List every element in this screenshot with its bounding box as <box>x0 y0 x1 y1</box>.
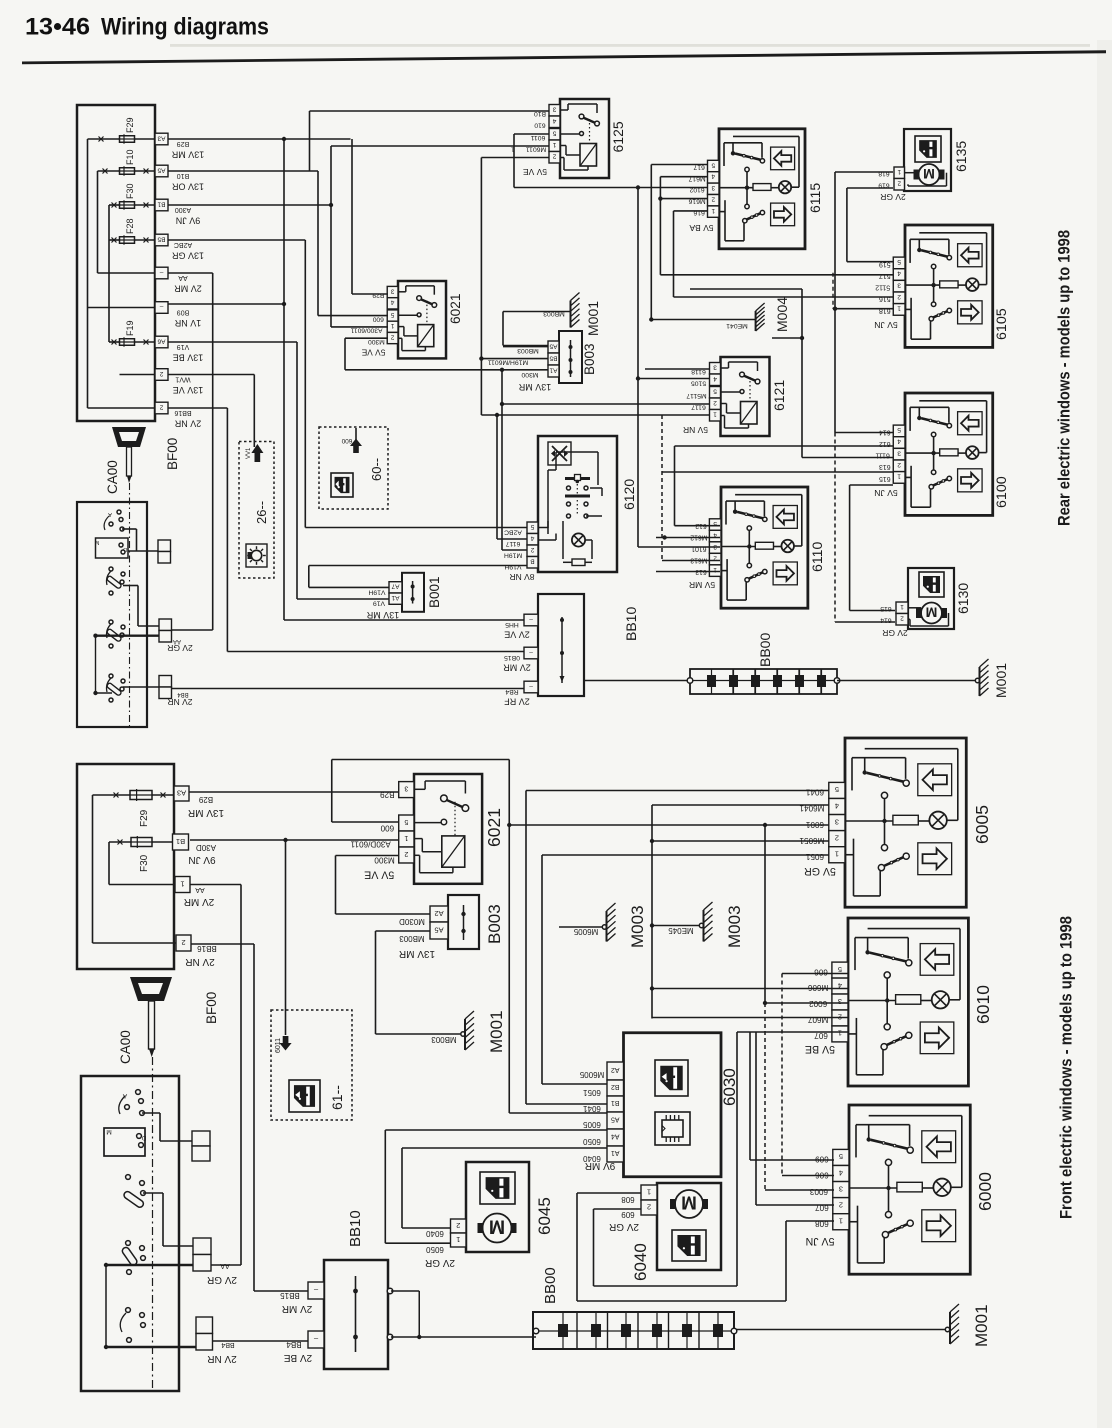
ignition switch CA00 front box <box>81 1076 179 1391</box>
svg-text:A2BC: A2BC <box>174 241 192 248</box>
6030 pin B1 <box>607 1096 624 1112</box>
ground M001 rear-mid <box>502 312 504 346</box>
svg-text:M607: M607 <box>807 1015 828 1024</box>
svg-text:5V VE: 5V VE <box>364 868 394 880</box>
svg-text:M001: M001 <box>993 663 1009 698</box>
svg-text:F28: F28 <box>125 218 135 234</box>
svg-text:0B15: 0B15 <box>504 654 520 661</box>
svg-text:2: 2 <box>390 333 394 340</box>
junction box BB10 rear <box>538 594 584 696</box>
wire 6115 pin5 to M004 <box>651 164 707 166</box>
svg-text:6101: 6101 <box>691 545 706 552</box>
svg-text:M19H/M6011: M19H/M6011 <box>488 359 529 366</box>
wire 1V NR B09 to BB10 <box>168 303 284 305</box>
svg-text:AA: AA <box>178 274 188 281</box>
junction box BB10 front <box>324 1260 388 1369</box>
wire A300 B1 to 6125 pin1 and 6021 pin1 <box>168 204 331 206</box>
ground M003 left <box>559 926 604 928</box>
svg-text:F30: F30 <box>139 854 150 872</box>
svg-text:B001: B001 <box>427 576 442 608</box>
BF00 pin – B09 <box>155 302 168 314</box>
svg-text:4: 4 <box>713 375 717 382</box>
svg-text:ME045: ME045 <box>668 926 694 935</box>
BF00 pin A3 B29 <box>155 133 168 145</box>
svg-text:B5: B5 <box>549 354 557 361</box>
svg-text:5112: 5112 <box>875 284 890 291</box>
svg-text:2: 2 <box>181 938 185 947</box>
wire 6115 pin4/pin2 to 6105 pin4 <box>660 176 707 178</box>
svg-text:608: 608 <box>621 1195 635 1204</box>
svg-text:2: 2 <box>404 850 408 858</box>
svg-text:A3: A3 <box>177 788 186 797</box>
wire M6011 6125 pin2 to B003 <box>481 157 549 159</box>
wire 6110 pin5 to 6100 pin4 <box>675 525 721 527</box>
switch 6115 <box>719 129 805 249</box>
svg-text:M003: M003 <box>628 905 647 948</box>
svg-text:A1: A1 <box>549 366 557 373</box>
CA00 front connector 1 <box>192 1131 210 1146</box>
svg-text:6003: 6003 <box>809 1187 828 1196</box>
svg-text:5V BE: 5V BE <box>805 1043 835 1055</box>
60-- arrow 600 <box>355 428 357 440</box>
svg-text:13V MR: 13V MR <box>399 948 435 959</box>
svg-text:A7: A7 <box>391 583 399 590</box>
CA00 front connector AA <box>193 1238 211 1255</box>
wire 609 inner loop <box>594 1208 642 1210</box>
svg-text:6130: 6130 <box>955 583 971 614</box>
svg-text:5: 5 <box>552 130 556 137</box>
wire BB16 front chain <box>191 943 254 945</box>
svg-text:B1: B1 <box>176 837 185 846</box>
svg-text:1: 1 <box>897 473 901 480</box>
svg-text:2: 2 <box>897 461 901 468</box>
svg-text:5V JN: 5V JN <box>806 1235 835 1247</box>
wire 606 dashed chain <box>781 974 783 1176</box>
svg-text:F19: F19 <box>125 320 135 336</box>
svg-text:13V MR: 13V MR <box>518 382 551 392</box>
svg-text:M617: M617 <box>688 175 705 182</box>
svg-text:6110: 6110 <box>809 541 825 572</box>
BF00 front pin B1 <box>173 834 189 850</box>
6030 pin A1 <box>607 1146 624 1162</box>
svg-text:2V GR: 2V GR <box>882 628 908 638</box>
svg-text:B29: B29 <box>177 140 190 147</box>
svg-text:13V MR: 13V MR <box>366 610 399 620</box>
svg-text:A300: A300 <box>175 206 191 213</box>
svg-text:3: 3 <box>835 817 839 826</box>
fuse F30 front <box>131 838 152 847</box>
svg-text:2: 2 <box>900 615 904 622</box>
dashed link 6121/6110 <box>661 415 663 561</box>
svg-text:2: 2 <box>456 1221 460 1230</box>
svg-text:2: 2 <box>835 833 839 842</box>
svg-text:1: 1 <box>390 322 394 329</box>
svg-text:6125: 6125 <box>610 121 626 152</box>
svg-text:2: 2 <box>713 399 717 406</box>
svg-text:4: 4 <box>530 535 534 542</box>
svg-text:A2: A2 <box>434 909 443 918</box>
svg-text:BB10: BB10 <box>623 607 639 641</box>
BF00 front pin 2 <box>176 935 191 951</box>
svg-text:A2BC: A2BC <box>504 529 522 536</box>
svg-text:F29: F29 <box>139 809 150 827</box>
connector B003 rear <box>559 331 582 383</box>
svg-text:5V VE: 5V VE <box>361 348 385 358</box>
svg-text:BB16: BB16 <box>197 944 217 953</box>
svg-text:1: 1 <box>900 603 904 610</box>
svg-text:F29: F29 <box>125 117 135 133</box>
fusebox BF00 rear <box>77 105 155 421</box>
svg-text:RB4: RB4 <box>505 688 518 695</box>
wire B29/A3 to 6021 pin3 <box>168 138 351 140</box>
svg-text:M19H: M19H <box>504 552 522 559</box>
CA00 front contact 2 <box>126 1175 131 1180</box>
title rule <box>170 44 1090 47</box>
svg-text:1: 1 <box>835 849 839 858</box>
svg-text:5: 5 <box>530 523 534 530</box>
61-- window icon <box>289 1080 320 1112</box>
svg-text:2: 2 <box>711 195 715 202</box>
svg-text:V19: V19 <box>177 343 190 350</box>
switch 6105 <box>905 225 993 347</box>
svg-text:M300: M300 <box>521 371 538 378</box>
svg-text:5V GR: 5V GR <box>804 865 836 877</box>
svg-text:6040: 6040 <box>426 1229 444 1238</box>
fuse F29 front <box>130 791 152 800</box>
svg-text:2V MR: 2V MR <box>184 896 215 907</box>
wire WV1 13V VE to 26-- <box>168 374 254 376</box>
svg-text:9V JN: 9V JN <box>188 854 215 865</box>
svg-text:5: 5 <box>897 426 901 433</box>
wire 6041 long <box>526 790 829 792</box>
connector strip BB00 rear <box>690 669 837 694</box>
svg-text:A1: A1 <box>611 1149 620 1156</box>
svg-text:6105: 6105 <box>994 308 1010 340</box>
wire M300 6021 pin2 to B003 <box>336 855 399 857</box>
wire B001-A7 to 6120 pinB <box>309 586 389 588</box>
svg-text:2: 2 <box>159 370 163 377</box>
svg-text:4: 4 <box>835 801 839 810</box>
svg-text:6005: 6005 <box>583 1120 601 1129</box>
wire 6001 to 6005 pin3 <box>509 824 829 826</box>
svg-text:A30D: A30D <box>196 843 216 852</box>
svg-text:3: 3 <box>839 1184 843 1193</box>
wire 6115 pin1 to 6105 pin2 <box>674 210 708 212</box>
svg-text:6120: 6120 <box>621 479 637 510</box>
svg-text:6021: 6021 <box>448 293 463 324</box>
ignition key CA00 front <box>130 977 172 1001</box>
svg-text:2V BE: 2V BE <box>284 1352 313 1363</box>
svg-text:A6: A6 <box>157 337 165 344</box>
svg-text:5: 5 <box>711 161 715 168</box>
fuse F29 <box>120 136 135 143</box>
svg-text:6050: 6050 <box>583 1137 601 1146</box>
wire 6100 pin2 long <box>662 471 893 473</box>
svg-text:4: 4 <box>839 1168 843 1177</box>
26-- arrow VV1 <box>253 375 255 448</box>
svg-text:3: 3 <box>838 997 842 1006</box>
switch 6110 <box>721 487 808 608</box>
svg-text:13V GR: 13V GR <box>171 251 204 261</box>
svg-text:5105: 5105 <box>691 380 706 387</box>
ignition key CA00 rear <box>112 427 146 447</box>
svg-text:6135: 6135 <box>953 141 969 172</box>
fuse F19 <box>120 339 135 346</box>
svg-text:BB15: BB15 <box>280 1291 300 1300</box>
fuse F30 <box>120 202 135 209</box>
ignition switch CA00 rear box <box>77 502 147 727</box>
svg-text:CA00: CA00 <box>105 460 120 494</box>
svg-text:61--: 61-- <box>329 1085 345 1110</box>
wire 609 chain <box>749 1032 751 1160</box>
wire A30D to 6021 pin1 and 61-- <box>190 839 398 841</box>
svg-text:2V GR: 2V GR <box>207 1274 237 1285</box>
wire 6110 pin1 stub <box>656 571 720 573</box>
svg-text:5: 5 <box>390 311 394 318</box>
svg-text:B: B <box>530 558 534 565</box>
wire A2BC B5 to 6120 pin5 <box>168 239 305 241</box>
svg-text:618: 618 <box>879 307 891 314</box>
svg-text:B003: B003 <box>582 343 597 375</box>
svg-text:Wiring diagrams: Wiring diagrams <box>101 14 269 41</box>
wire 6050 to 6045 pin1 <box>385 1129 607 1131</box>
svg-text:2V GR: 2V GR <box>167 643 193 653</box>
svg-text:5V JN: 5V JN <box>874 488 898 498</box>
svg-text:2V NR: 2V NR <box>167 697 192 707</box>
svg-text:4: 4 <box>897 270 901 277</box>
switch 6005 <box>845 738 966 907</box>
svg-text:2: 2 <box>552 153 556 160</box>
svg-text:–: – <box>159 268 163 275</box>
svg-text:2V MR: 2V MR <box>503 663 531 673</box>
svg-text:BB10: BB10 <box>347 1210 364 1247</box>
wire AA front chain <box>190 884 241 886</box>
svg-text:M003: M003 <box>725 905 744 948</box>
6030 pin A2 <box>607 1062 624 1080</box>
svg-text:CA00: CA00 <box>118 1030 133 1064</box>
svg-text:WV1: WV1 <box>175 376 190 383</box>
svg-text:M: M <box>681 1192 697 1213</box>
svg-text:MB003: MB003 <box>517 347 539 354</box>
svg-text:1: 1 <box>897 168 901 175</box>
svg-text:B003: B003 <box>485 904 504 944</box>
CA00 rear contact 3 <box>109 620 113 624</box>
svg-text:–: – <box>529 682 533 689</box>
connector B003 front <box>448 895 479 949</box>
svg-text:60--: 60-- <box>369 458 384 481</box>
svg-text:609: 609 <box>815 1155 829 1164</box>
svg-text:A4: A4 <box>611 1133 620 1140</box>
26-- bulb icon <box>246 544 267 567</box>
svg-text:MB003: MB003 <box>431 1035 457 1044</box>
BF00 pin 2 WV1 <box>155 369 168 381</box>
svg-text:–: – <box>159 303 163 310</box>
motor 6045 <box>466 1162 529 1252</box>
svg-text:2V GR: 2V GR <box>609 1221 639 1232</box>
svg-text:F30: F30 <box>125 183 135 199</box>
svg-text:2: 2 <box>647 1202 651 1211</box>
svg-text:6041: 6041 <box>805 788 824 797</box>
svg-text:2: 2 <box>897 180 901 187</box>
svg-text:B2: B2 <box>611 1083 620 1090</box>
wire B10 A5 to 6125 pin3 <box>168 170 318 172</box>
svg-text:MB003: MB003 <box>543 310 565 317</box>
60-- window icon <box>331 473 353 497</box>
svg-text:606: 606 <box>814 967 828 976</box>
relay 6021 <box>414 774 482 884</box>
BF00 front internal wiring <box>93 794 131 796</box>
svg-text:–: – <box>529 615 533 622</box>
svg-text:M004: M004 <box>774 297 790 332</box>
wire 6105/6100 pin3 link <box>801 289 803 458</box>
svg-text:5V NR: 5V NR <box>683 425 708 435</box>
wire BB4 front to BB10 <box>213 1340 309 1342</box>
timer unit 6120 <box>538 436 617 572</box>
motor 6040 <box>657 1183 721 1270</box>
svg-text:1: 1 <box>552 141 556 148</box>
svg-text:BF00: BF00 <box>165 438 180 470</box>
CA00 rear connector 2 AA <box>159 619 172 631</box>
svg-text:–: – <box>529 648 533 655</box>
svg-text:5: 5 <box>838 965 842 974</box>
svg-text:6041: 6041 <box>583 1104 601 1113</box>
svg-text:2: 2 <box>159 403 163 410</box>
svg-text:4: 4 <box>552 117 556 124</box>
relay 6121 <box>721 357 770 436</box>
BF00 internal wiring <box>88 138 120 140</box>
BF00 front pin 1 <box>175 877 190 893</box>
CA00 front connector BB4 <box>196 1317 213 1334</box>
BF00 pin B5 A2BC <box>155 234 168 246</box>
wire B29 front to 6021 pin3 <box>189 791 398 793</box>
CA00 rear connector 3 BB4 <box>159 676 172 688</box>
svg-text:M: M <box>106 1128 111 1135</box>
svg-text:3: 3 <box>390 287 394 294</box>
wire 6117 vertical to 6120 pin4 <box>496 415 498 539</box>
61-- arrow 6011 <box>279 1036 291 1051</box>
wire A3 branch to BB10 <box>283 139 285 620</box>
svg-text:2V RF: 2V RF <box>504 697 530 707</box>
svg-text:BB00: BB00 <box>757 633 773 667</box>
dashed link 6105 pins <box>832 273 834 309</box>
svg-text:1: 1 <box>404 834 408 842</box>
svg-text:613: 613 <box>879 463 891 470</box>
wire 6125 pin5 to 6115 pin3 <box>514 133 549 135</box>
svg-text:1: 1 <box>838 1029 842 1038</box>
motor unit 6130 <box>908 568 954 629</box>
svg-text:BB00: BB00 <box>542 1267 559 1304</box>
svg-text:6050: 6050 <box>426 1245 444 1254</box>
svg-text:6011: 6011 <box>530 134 545 141</box>
svg-text:610: 610 <box>534 122 546 129</box>
wire 6002 chain <box>764 825 766 1003</box>
wire 6005/6001 long vertical <box>508 760 510 1114</box>
BF00 pin A6 V19 <box>155 336 168 348</box>
svg-text:13V MR: 13V MR <box>171 150 204 160</box>
wire 6051 6005 pin1 to 6030 B2 <box>542 854 829 856</box>
svg-text:2: 2 <box>897 293 901 300</box>
svg-text:1: 1 <box>713 411 717 418</box>
svg-text:3: 3 <box>897 281 901 288</box>
svg-text:6115: 6115 <box>807 183 823 213</box>
svg-text:5V BA: 5V BA <box>689 223 713 233</box>
svg-text:618: 618 <box>878 170 890 177</box>
svg-text:2V GR: 2V GR <box>880 192 906 202</box>
svg-text:13V MR: 13V MR <box>188 807 224 818</box>
wire 607 chain <box>737 1031 848 1033</box>
svg-text:B1: B1 <box>611 1099 620 1106</box>
svg-text:2V MR: 2V MR <box>174 284 202 294</box>
BF00 pin 2 BB16 <box>155 402 168 414</box>
svg-text:M6005: M6005 <box>579 1070 604 1079</box>
fuse F10 <box>120 168 135 175</box>
ground M004 <box>651 319 755 321</box>
relay 6125 <box>560 99 609 178</box>
wire 608 outer loop <box>577 1192 641 1194</box>
CA00 rear contact 1 <box>117 510 121 514</box>
svg-text:13•46: 13•46 <box>25 14 90 41</box>
svg-text:13V VE: 13V VE <box>173 385 204 395</box>
svg-text:1: 1 <box>897 305 901 312</box>
svg-text:BB4: BB4 <box>177 691 189 697</box>
svg-text:3: 3 <box>711 184 715 191</box>
connector B001 <box>402 573 424 612</box>
svg-text:13V OR: 13V OR <box>171 182 204 192</box>
svg-text:BF00: BF00 <box>204 992 219 1024</box>
svg-text:M6005: M6005 <box>573 927 598 936</box>
CA00 rear contact 2 <box>109 567 113 571</box>
svg-text:6045: 6045 <box>535 1197 554 1235</box>
svg-text:A5: A5 <box>611 1116 620 1123</box>
svg-text:V19: V19 <box>373 600 385 607</box>
svg-text:609: 609 <box>621 1210 635 1219</box>
6030 pin B2 <box>607 1080 624 1096</box>
BF00 pin A5 B10 <box>155 165 168 177</box>
wire 6135 pin1 chain to 6105/6100/6130 <box>835 171 893 173</box>
svg-text:6121: 6121 <box>771 380 787 411</box>
relay 6021 <box>398 281 446 358</box>
wire AA to CA00 <box>168 272 213 274</box>
svg-text:616: 616 <box>693 209 705 216</box>
svg-text:Rear electric windows - models: Rear electric windows - models up to 199… <box>1056 230 1074 526</box>
svg-text:V19H: V19H <box>368 589 385 596</box>
svg-text:1: 1 <box>456 1235 460 1244</box>
fusebox BF00 front <box>77 764 174 969</box>
svg-text:B29: B29 <box>198 795 213 804</box>
CA00 front contact 1 <box>136 1090 141 1095</box>
svg-text:B5: B5 <box>157 235 165 242</box>
svg-text:6051: 6051 <box>583 1088 601 1097</box>
wire BB16 2V NR to BB10 <box>168 407 227 409</box>
svg-text:6000: 6000 <box>975 1172 995 1211</box>
svg-text:A3: A3 <box>157 134 165 141</box>
svg-text:M030D: M030D <box>399 917 425 926</box>
wire 6040 to 6045 pin2 <box>402 1147 607 1149</box>
svg-text:AA: AA <box>195 886 205 893</box>
wire M6041 M6051 M606 M607 via x652 <box>651 805 653 1019</box>
switch 6000 <box>849 1105 970 1274</box>
ground M001 front-right <box>736 1329 947 1331</box>
BF00 front pin A3 <box>174 786 189 801</box>
svg-text:B09: B09 <box>177 309 190 316</box>
svg-text:2V NR: 2V NR <box>185 956 214 967</box>
svg-text:VV1: VV1 <box>246 447 252 459</box>
CA00 front contact 4 <box>126 1308 131 1313</box>
svg-text:13V BE: 13V BE <box>173 353 204 363</box>
svg-text:26--: 26-- <box>254 501 269 524</box>
svg-text:5: 5 <box>835 785 839 794</box>
ground M001 rear-right <box>837 680 977 682</box>
